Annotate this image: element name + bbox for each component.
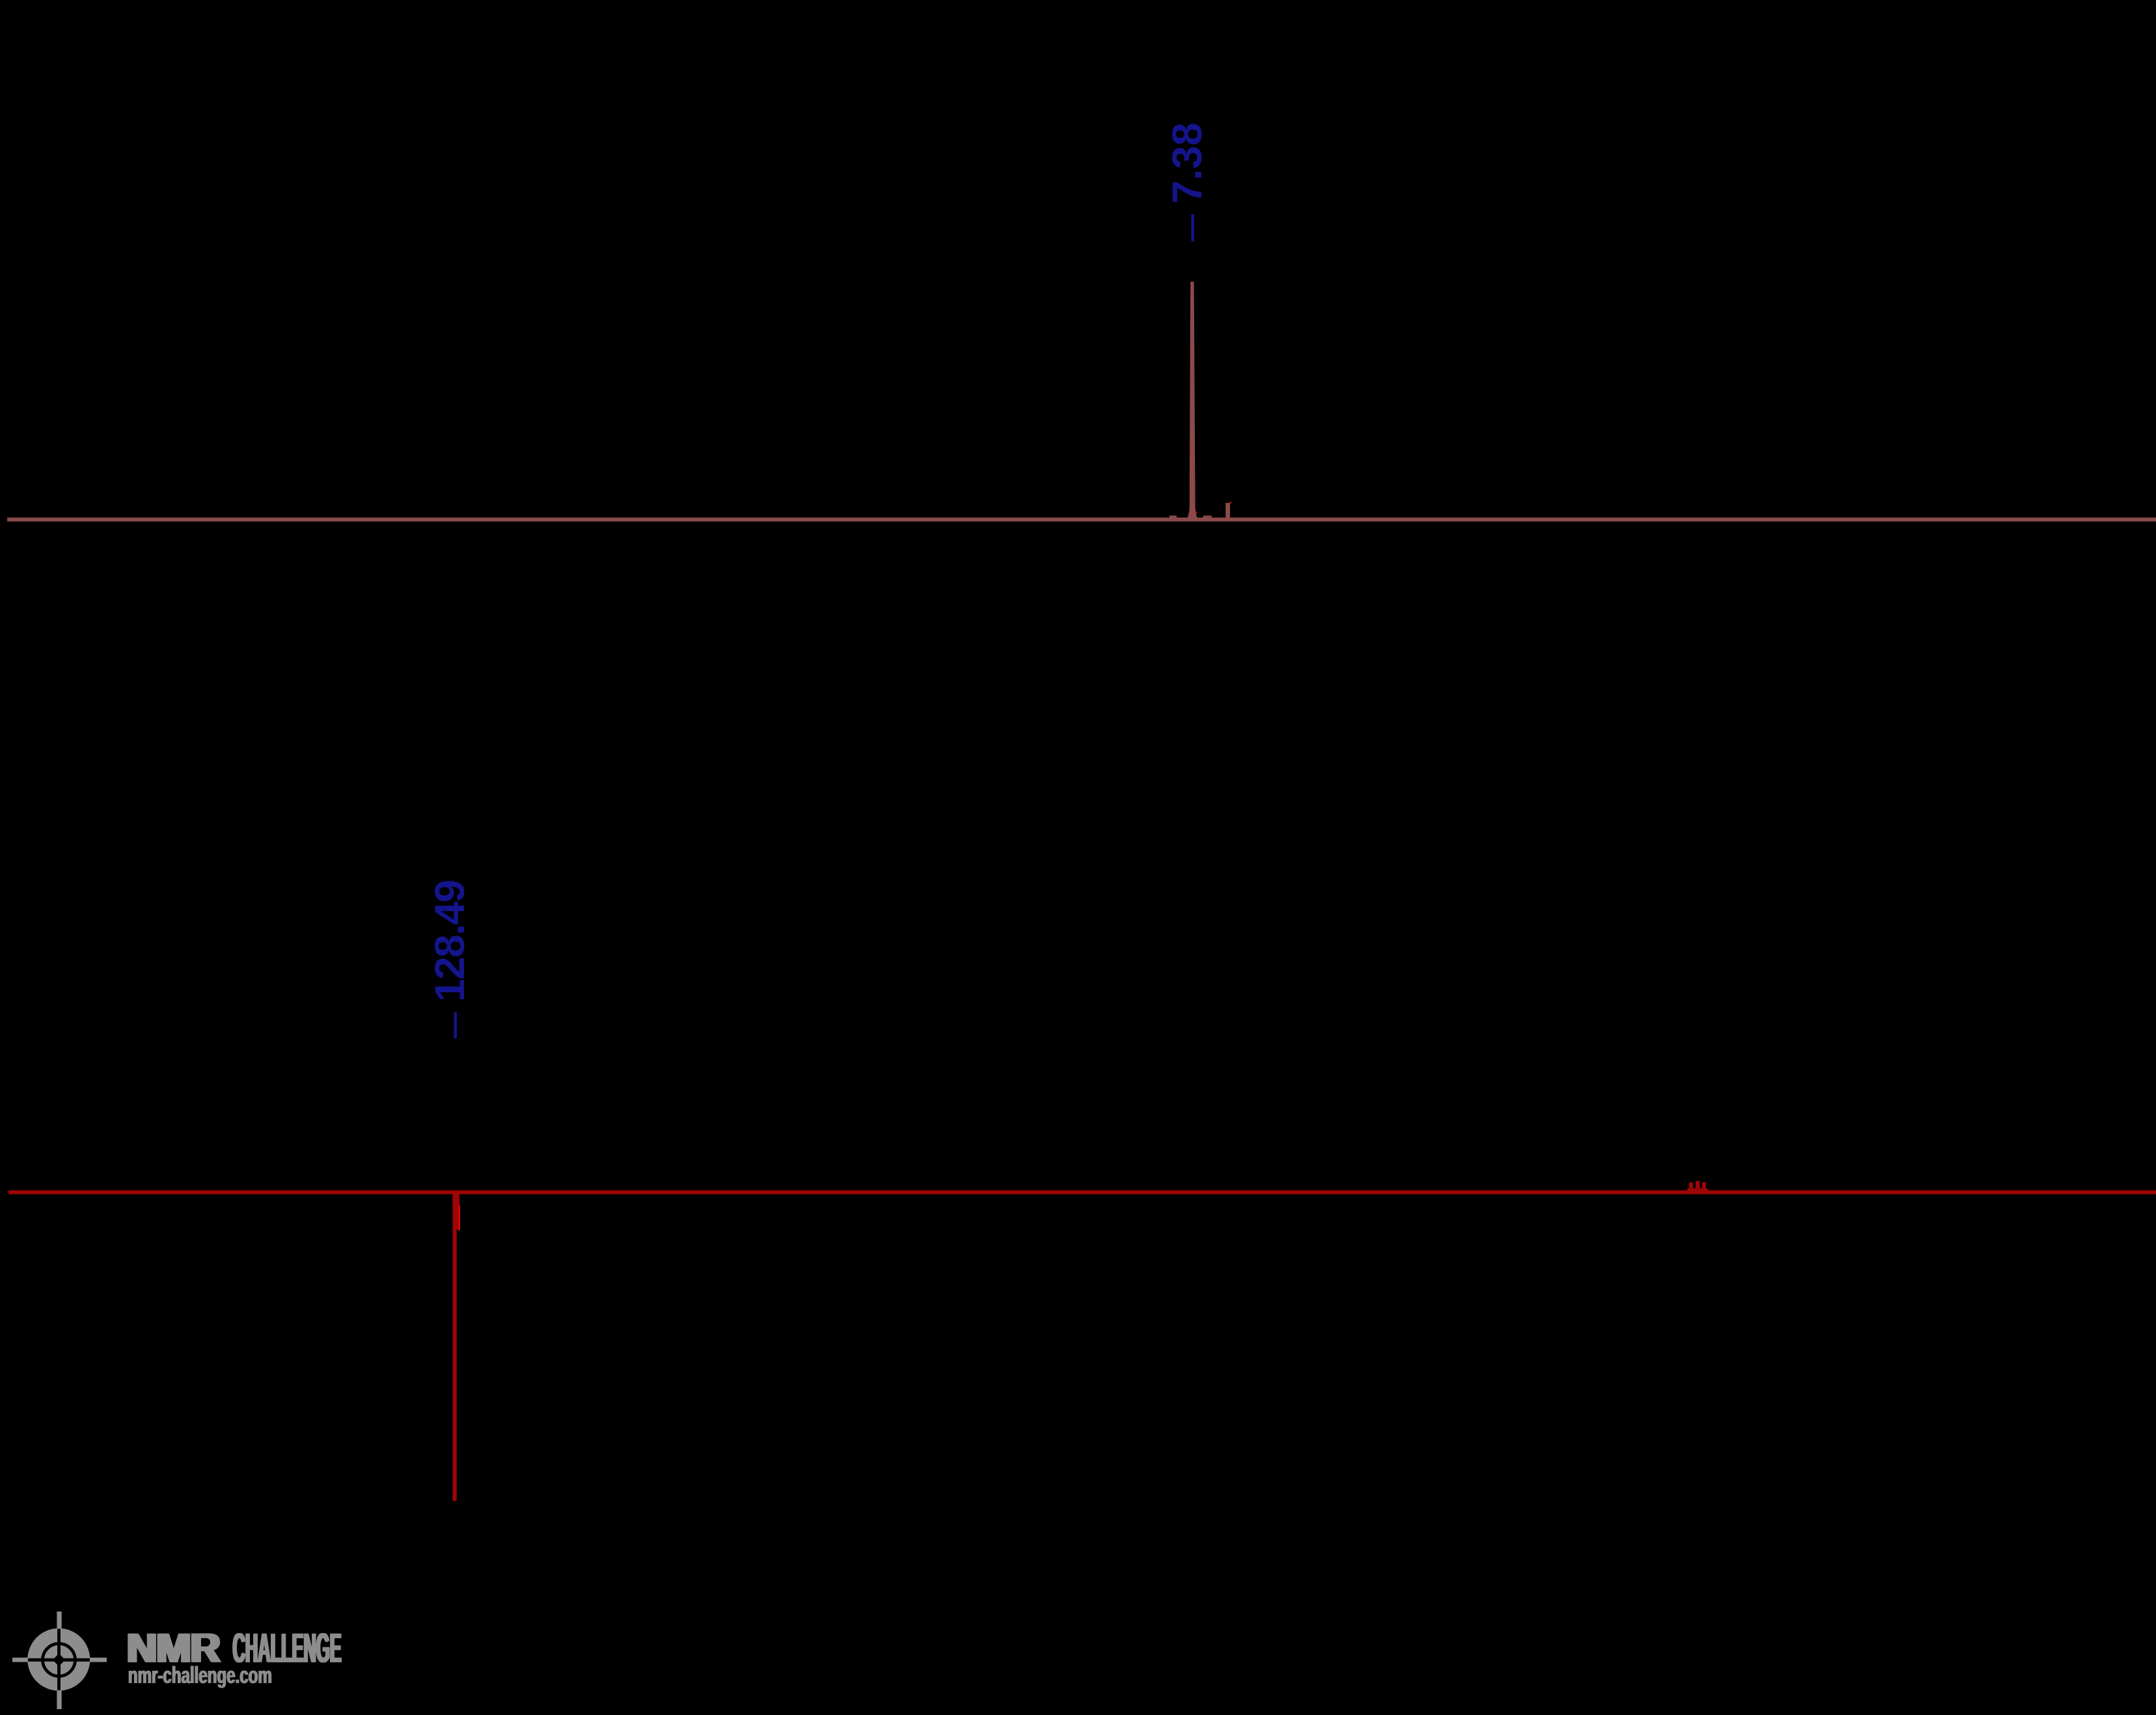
1H peak 7.38 base flare: [1186, 507, 1199, 520]
13C label tick: [454, 1012, 457, 1038]
stub bottom: [57, 1690, 61, 1709]
logo crosshair icon: [12, 1612, 107, 1709]
1H spectrum baseline: [7, 518, 2156, 522]
13C downward peak 128.49: [453, 1192, 457, 1501]
cross cutout horizontal: [27, 1658, 90, 1662]
stub left: [12, 1658, 28, 1662]
stub right: [90, 1658, 107, 1662]
inner ring: [43, 1643, 75, 1676]
cross cutout vertical: [57, 1628, 61, 1692]
svg-text:nmr-challenge.com: nmr-challenge.com: [129, 1662, 273, 1688]
svg-text:128.49: 128.49: [426, 880, 473, 1002]
1H satellite bumps: [1169, 516, 1177, 519]
logo text NMR: [125, 1625, 222, 1671]
logo text CHALLENGE: [232, 1626, 342, 1671]
1H peak 7.38: [1190, 282, 1195, 520]
1H red picking dot: [1195, 512, 1197, 513]
13C spectrum baseline: [8, 1191, 2156, 1195]
1H small peak right: [1225, 503, 1230, 519]
13C solvent triplet: [1689, 1183, 1693, 1191]
svg-text:7.38: 7.38: [1164, 122, 1210, 204]
outer disc: [27, 1628, 90, 1691]
13C bright red inner line: [459, 1205, 461, 1230]
center star: [53, 1654, 66, 1667]
1H label tick: [1192, 214, 1195, 241]
logo text nmr-challenge.com: [128, 1662, 273, 1688]
13C downward peak shoulder: [457, 1192, 460, 1230]
stub top: [57, 1612, 61, 1629]
